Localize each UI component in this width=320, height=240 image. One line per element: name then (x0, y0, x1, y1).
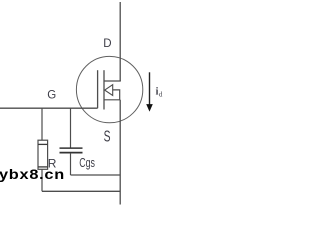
svg-text:S: S (104, 128, 111, 145)
svg-text:G: G (47, 90, 56, 102)
svg-text:D: D (103, 38, 111, 50)
svg-text:d: d (159, 90, 163, 98)
svg-text:Cgs: Cgs (79, 155, 95, 170)
